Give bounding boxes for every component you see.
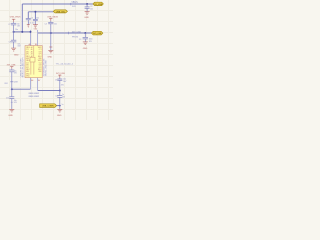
junction dot — [59, 105, 61, 107]
capacitor C14 — [9, 97, 14, 110]
svg-text:GND: GND — [84, 17, 89, 19]
svg-text:GND: GND — [26, 58, 29, 60]
svg-text:GND: GND — [38, 71, 41, 73]
pin A7 bottom (x=37.6) — [37, 78, 39, 91]
port 3V3 — [92, 31, 103, 35]
pin tick — [49, 46, 52, 48]
svg-text:USBDP: USBDP — [34, 96, 39, 98]
svg-text:VBUS: VBUS — [38, 47, 42, 49]
power port USB_VBUS — [12, 19, 15, 22]
svg-text:VBUS: VBUS — [71, 2, 78, 4]
svg-text:C9: C9 — [55, 80, 57, 82]
svg-text:3V3_USB: 3V3_USB — [56, 73, 65, 75]
svg-text:10n: 10n — [32, 22, 35, 24]
ground — [33, 25, 38, 27]
wire mid 3V3 rail — [38, 32, 92, 34]
svg-text:10n: 10n — [36, 17, 39, 19]
svg-text:SHLD: SHLD — [26, 73, 30, 75]
svg-text:1n: 1n — [62, 104, 64, 106]
pin names left — [26, 47, 30, 78]
svg-text:USBDP: USBDP — [34, 93, 39, 95]
svg-text:10n: 10n — [54, 24, 57, 26]
svg-text:SBU2: SBU2 — [26, 69, 30, 71]
port USB_CONN bottom — [40, 104, 57, 108]
svg-text:VBUS: VBUS — [26, 60, 30, 62]
svg-text:FB1: FB1 — [5, 83, 8, 85]
capacitor C8 — [11, 40, 16, 48]
svg-text:CC1: CC1 — [26, 49, 29, 51]
junction dot — [34, 11, 36, 13]
svg-text:GND: GND — [26, 71, 29, 73]
svg-text:3V3_USB: 3V3_USB — [72, 31, 82, 33]
capacitor C6 — [26, 19, 31, 25]
wire 5V row (wire B) — [28, 11, 53, 13]
capacitor C11 — [57, 96, 62, 110]
capacitor C9 — [57, 78, 62, 96]
svg-text:PROG: PROG — [72, 36, 79, 38]
svg-text:3V3_USB: 3V3_USB — [93, 33, 102, 35]
svg-text:USBDN: USBDN — [29, 96, 34, 98]
svg-text:GND: GND — [48, 57, 53, 59]
svg-text:C7: C7 — [8, 24, 10, 26]
power port 3V3 — [10, 67, 13, 69]
ground — [9, 109, 14, 112]
svg-text:C4: C4 — [45, 23, 47, 25]
junction dot — [50, 32, 52, 34]
power port USB_VBUS — [49, 19, 52, 21]
junction dot — [84, 32, 86, 34]
svg-text:C8: C8 — [9, 41, 11, 43]
svg-text:SBU1: SBU1 — [38, 56, 42, 58]
ground — [83, 42, 88, 45]
svg-text:DP1: DP1 — [39, 54, 42, 56]
ground — [57, 109, 62, 112]
capacitor C2 — [85, 4, 90, 11]
wire corner down to C6 — [27, 12, 29, 19]
junction dot — [30, 31, 32, 33]
pin A4 top (x=30.5) — [30, 30, 32, 46]
svg-text:3V3_USB: 3V3_USB — [7, 65, 16, 67]
port USB_5V0 — [53, 10, 67, 13]
svg-text:GND: GND — [57, 115, 62, 117]
port VBUS top right — [93, 2, 103, 6]
svg-text:VBUS: VBUS — [38, 60, 42, 62]
svg-text:USB_VBUS: USB_VBUS — [47, 17, 58, 19]
svg-text:GND: GND — [38, 58, 41, 60]
svg-text:USBDN: USBDN — [29, 93, 34, 95]
pin names mid — [31, 46, 33, 58]
svg-text:GND: GND — [83, 48, 88, 50]
svg-text:MICRO_USB_AB_RCPT: MICRO_USB_AB_RCPT — [21, 57, 24, 78]
svg-text:USB_5V0: USB_5V0 — [56, 11, 66, 13]
capacitor C7 — [11, 22, 16, 40]
svg-text:VBUS: VBUS — [26, 47, 30, 49]
capacitor C3 — [83, 33, 88, 42]
ground — [85, 12, 90, 15]
svg-text:DN1: DN1 — [39, 51, 42, 53]
junction dot — [21, 31, 23, 33]
wire bottom right (USB_DP) — [38, 90, 60, 92]
svg-text:DP1: DP1 — [26, 54, 29, 56]
net label USB_DN — [29, 93, 39, 98]
svg-text:C5: C5 — [31, 17, 33, 19]
svg-text:DN1: DN1 — [26, 51, 29, 53]
svg-text:CC1: CC1 — [39, 49, 42, 51]
wire horizontal to IC pin A4 — [14, 31, 31, 33]
svg-text:DN2: DN2 — [39, 65, 42, 67]
pin B4 top (x=37.6) — [37, 30, 39, 46]
grid — [0, 0, 113, 120]
svg-text:GND: GND — [14, 54, 19, 56]
label tick — [67, 32, 69, 34]
svg-text:C14: C14 — [6, 98, 9, 100]
svg-text:GND: GND — [8, 115, 13, 117]
sheet background — [0, 0, 113, 120]
svg-text:SHLD: SHLD — [26, 76, 30, 78]
capacitor C5 — [33, 19, 38, 24]
svg-text:B4: B4 — [35, 44, 37, 46]
svg-text:C6: C6 — [29, 22, 31, 24]
svg-text:CC2: CC2 — [26, 62, 29, 64]
svg-text:DN2: DN2 — [26, 65, 29, 67]
connector glyph — [30, 57, 35, 74]
svg-text:10u: 10u — [15, 29, 18, 31]
wire stub junction to C5 — [34, 12, 36, 19]
wire port4 stub — [57, 105, 60, 107]
svg-text:CC2: CC2 — [39, 62, 42, 64]
svg-text:USB_CONN: USB_CONN — [42, 106, 54, 108]
svg-text:USB_VBUS: USB_VBUS — [10, 16, 21, 18]
svg-text:DP2: DP2 — [39, 67, 42, 69]
svg-text:TTL_wb_header_1: TTL_wb_header_1 — [56, 63, 74, 66]
junction dot — [11, 88, 13, 90]
svg-text:SBU2: SBU2 — [38, 69, 42, 71]
power port 3V3 — [58, 75, 61, 77]
svg-text:SBU1: SBU1 — [26, 56, 30, 58]
IC body — [25, 46, 42, 78]
svg-text:C3: C3 — [79, 39, 81, 41]
svg-text:10n: 10n — [90, 9, 93, 11]
svg-text:DP2: DP2 — [26, 67, 29, 69]
junction dot — [86, 3, 88, 5]
ground — [11, 48, 16, 51]
wire VBUS top rail — [22, 3, 93, 5]
wire vertical from top rail down to junction — [21, 4, 23, 32]
junction dot — [59, 90, 61, 92]
junction dot — [13, 31, 15, 33]
svg-text:C11: C11 — [55, 96, 58, 98]
svg-text:MICRO_USB_SMD: MICRO_USB_SMD — [45, 60, 47, 76]
ground — [48, 50, 53, 53]
wire bottom left (USB_DN) — [12, 88, 31, 90]
ground — [27, 25, 30, 27]
ferrite tick — [10, 81, 13, 83]
capacitor C4 — [48, 21, 53, 50]
svg-text:5V_USB: 5V_USB — [94, 4, 102, 6]
wire tick — [11, 101, 13, 103]
pin A6 bottom (x=30.5) — [30, 78, 32, 90]
pin names right — [38, 47, 42, 73]
capacitor C12 — [9, 69, 14, 97]
label tick — [70, 3, 72, 5]
